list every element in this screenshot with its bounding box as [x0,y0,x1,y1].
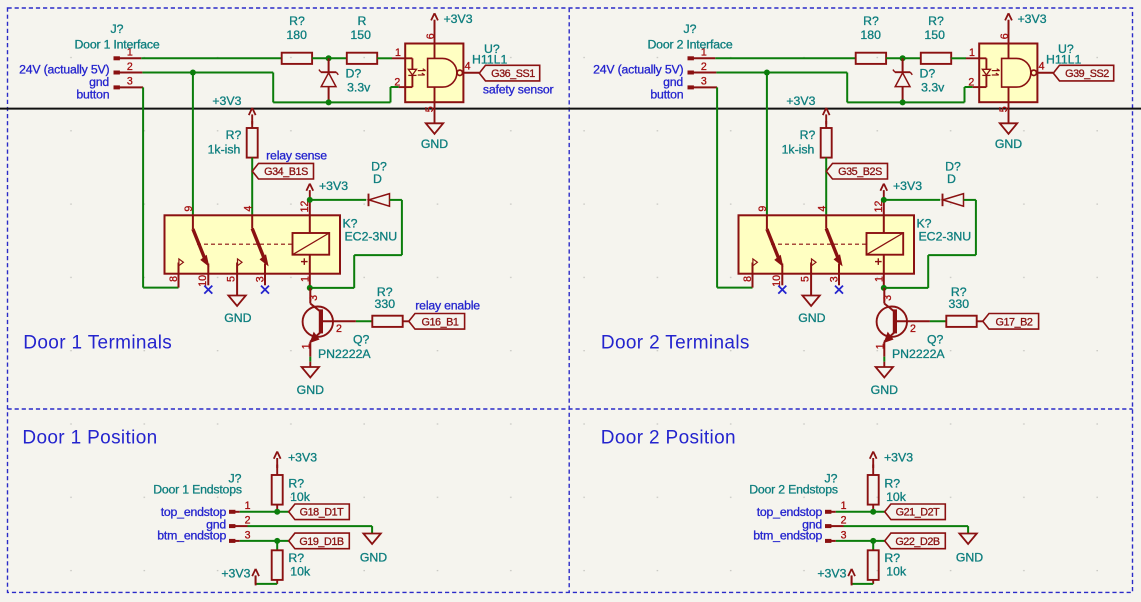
wire base to R330 [356,320,372,322]
ground relay pin 5 [802,296,819,307]
svg-text:10k: 10k [886,490,907,504]
wire flyback diode return loop [884,200,976,288]
opto pin 4 output [463,61,479,73]
svg-text:6: 6 [425,33,437,39]
section divider horizontal [8,408,1133,410]
svg-text:3: 3 [127,76,133,88]
connector J? endstop pin 1 [230,500,251,513]
transistor Q? PN2222A [874,288,945,361]
svg-text:Door 2 Position: Door 2 Position [601,428,736,449]
svg-text:180: 180 [286,28,307,42]
ground opto pin 5 [421,102,448,151]
resistor R? 180 [282,14,312,64]
svg-text:G34_B1S: G34_B1S [264,166,308,178]
section divider vertical [568,8,570,592]
svg-text:Door 1 Endstops: Door 1 Endstops [153,483,242,497]
connector J? endstop pin 3 [230,529,251,542]
wire emitter to ground [309,357,311,362]
svg-text:1: 1 [969,47,975,59]
node relay pin12 junction [881,197,887,203]
wire 24V rail pin2 [142,73,398,103]
global label relay enable flag [409,314,465,330]
svg-text:G18_D1T: G18_D1T [300,507,345,519]
svg-text:G21_D2T: G21_D2T [896,507,941,519]
svg-text:+3V3: +3V3 [212,94,241,108]
wire 24V to relay pin 9 [192,73,194,216]
svg-text:9: 9 [757,206,769,212]
svg-text:Door 2 Endstops: Door 2 Endstops [749,483,838,497]
svg-text:J?: J? [684,22,697,36]
svg-text:R?: R? [288,551,304,565]
svg-text:Door 2 Interface: Door 2 Interface [648,38,733,52]
wire top_endstop [836,511,885,513]
ground transistor emitter [871,362,898,397]
svg-text:EC2-3NU: EC2-3NU [918,230,971,244]
svg-text:GND: GND [995,137,1022,151]
graphic separator line [0,108,1141,110]
connector J? Door 1 Interface pin 2 [114,61,142,74]
text J? Door 2 Interface [648,22,733,51]
svg-text:1k-ish: 1k-ish [208,143,241,157]
svg-text:2: 2 [336,323,342,335]
svg-text:4: 4 [1039,61,1045,73]
connector J? endstop pin 2 [230,515,251,528]
wire flyback diode return loop [310,200,402,288]
connector J? Door 1 Interface pin 3 [114,76,143,89]
wire endstop gnd [248,526,373,533]
svg-text:1: 1 [395,47,401,59]
resistor R? 1k-ish [782,128,832,158]
svg-text:2: 2 [910,323,916,335]
svg-text:button: button [650,87,683,101]
svg-text:R?: R? [884,551,900,565]
flyback diode D? D [369,160,390,207]
relay K? EC2-3NU [739,200,972,296]
no-connect relay pin 10 [778,286,786,294]
wire R150 to opto pin1 [951,57,966,59]
node relay pin12 junction [307,197,313,203]
resistor 150 [347,28,377,64]
power +3V3 endstop pull-up top [274,451,317,475]
wire 10k to top_endstop [276,505,278,512]
svg-text:G19_D1B: G19_D1B [299,536,344,548]
svg-text:5: 5 [226,276,238,282]
global label relay enable flag [983,314,1039,330]
resistor R? 10k bottom [868,550,907,580]
wire coil to flyback diode [310,199,366,201]
flyback diode D? D [943,160,964,207]
svg-text:D?: D? [920,66,936,80]
svg-text:2: 2 [127,61,133,73]
svg-text:GND: GND [297,383,324,397]
zener diode D? 3.3v [893,58,945,102]
svg-text:150: 150 [924,28,945,42]
svg-text:10: 10 [771,275,783,287]
svg-text:H11L1: H11L1 [472,52,507,66]
svg-text:G17_B2: G17_B2 [996,316,1033,328]
svg-text:Door 1 Position: Door 1 Position [22,428,157,449]
svg-text:R?: R? [288,477,304,491]
wire btm_endstop to 10k [872,541,874,550]
svg-text:relay enable: relay enable [415,298,480,312]
svg-text:1: 1 [300,343,312,349]
wire btm_endstop [240,540,289,542]
text J? Door 1 Interface [75,22,160,51]
connector J? Door 2 Interface pin 1 [688,46,715,59]
power +3V3 endstop pull-up top [870,451,913,475]
svg-text:10k: 10k [290,490,311,504]
connector J? Door 2 Interface pin 3 [688,76,717,89]
svg-text:9: 9 [183,206,195,212]
node zener bottom junction [900,99,906,105]
svg-text:K?: K? [342,217,357,231]
svg-text:PN2222A: PN2222A [318,347,371,361]
svg-text:R?: R? [863,14,879,28]
svg-text:2: 2 [841,515,847,527]
wire base to R330 [930,320,946,322]
connector J? endstop pin 1 [826,500,847,513]
no-connect relay pin 3 [261,286,269,294]
svg-text:2: 2 [245,515,251,527]
svg-text:330: 330 [949,297,970,311]
wire R150 to opto pin1 [377,57,392,59]
power +3V3 relay sense resistor [212,94,255,128]
resistor R? 330 [946,285,976,327]
global label safety sensor flag [1053,65,1113,81]
connector J? endstop pin 3 [826,529,847,542]
global label top endstop flag [289,504,350,520]
svg-text:J?: J? [111,22,124,36]
ground relay pin 5 [228,296,245,307]
svg-text:1k-ish: 1k-ish [782,143,815,157]
svg-text:button: button [76,87,109,101]
svg-text:+3V3: +3V3 [884,451,913,465]
relay K? EC2-3NU [165,200,398,296]
svg-text:D: D [373,172,382,186]
svg-text:4: 4 [242,206,254,212]
global label relay sense flag [252,163,313,179]
svg-text:4: 4 [465,61,471,73]
node btm_endstop junction [870,538,876,544]
wire endstop gnd [844,526,969,533]
svg-text:+3V3: +3V3 [221,567,250,581]
svg-text:PN2222A: PN2222A [892,347,945,361]
svg-text:Door 1 Interface: Door 1 Interface [75,38,160,52]
wire R180 to R150 [312,57,347,59]
global label btm endstop flag [289,533,350,549]
svg-text:K?: K? [916,217,931,231]
power +3V3 opto pin 6 [425,12,473,44]
svg-text:GND: GND [224,311,251,325]
node zener top junction [326,55,332,61]
power +3V3 relay coil [306,179,348,200]
connector J? Door 2 Interface pin 2 [688,61,716,74]
svg-text:R?: R? [289,14,305,28]
svg-text:GND: GND [421,137,448,151]
resistor R? 10k bottom [272,550,311,580]
wire 10k to top_endstop [872,505,874,512]
svg-text:10: 10 [197,275,209,287]
node top_endstop junction [274,509,280,515]
svg-text:G36_SS1: G36_SS1 [491,68,535,80]
svg-text:EC2-3NU: EC2-3NU [344,230,397,244]
svg-text:10k: 10k [886,564,907,578]
wire R180 to R150 [886,57,921,59]
svg-text:Q?: Q? [927,333,944,347]
node relay pin1 collector junction [881,285,887,291]
resistor R? 180 [856,14,886,64]
svg-text:1: 1 [841,500,847,512]
svg-text:+3V3: +3V3 [786,94,815,108]
svg-text:4: 4 [816,206,828,212]
wire btm_endstop [836,540,885,542]
node top_endstop junction [870,509,876,515]
wire relay sense [825,158,827,216]
wire 10k bottom to +3V3 [852,580,874,584]
svg-text:3.3v: 3.3v [921,80,945,94]
svg-text:6: 6 [999,33,1011,39]
no-connect relay pin 3 [835,286,843,294]
svg-text:+3V3: +3V3 [893,179,922,193]
svg-text:G39_SS2: G39_SS2 [1065,68,1109,80]
opto-isolator U? H11L1 [392,42,508,102]
svg-text:2: 2 [701,61,707,73]
svg-text:330: 330 [375,297,396,311]
global label relay sense flag [826,163,887,179]
resistor R? 10k top [868,475,907,505]
svg-text:H11L1: H11L1 [1046,52,1081,66]
power +3V3 endstop bottom [817,567,855,586]
svg-text:btm_endstop: btm_endstop [157,528,226,542]
wire pin1 to R180 [141,57,281,59]
resistor R? 1k-ish [208,128,258,158]
svg-text:G16_B1: G16_B1 [422,316,459,328]
text J? Door 2 Endstops [749,472,838,497]
svg-text:GND: GND [360,551,387,565]
wire R330 to relay enable flag [977,320,983,322]
svg-text:R: R [358,14,367,28]
svg-text:R?: R? [928,14,944,28]
svg-text:+3V3: +3V3 [319,179,348,193]
svg-text:GND: GND [956,551,983,565]
svg-text:2: 2 [968,77,974,89]
connector J? endstop pin 2 [826,515,847,528]
svg-text:8: 8 [168,276,180,282]
wire coil to flyback diode [884,199,940,201]
svg-text:D: D [947,172,956,186]
svg-text:1: 1 [873,276,885,282]
node zener bottom junction [326,99,332,105]
svg-text:3.3v: 3.3v [347,80,371,94]
node btm_endstop junction [274,538,280,544]
svg-text:180: 180 [860,28,881,42]
wire relay sense [251,158,253,216]
svg-text:Door 1 Terminals: Door 1 Terminals [23,333,172,354]
opto-isolator U? H11L1 [966,42,1082,102]
svg-text:Door 2 Terminals: Door 2 Terminals [601,333,750,354]
svg-text:G35_B2S: G35_B2S [838,166,882,178]
svg-text:safety sensor: safety sensor [483,82,554,96]
svg-text:150: 150 [350,28,371,42]
wire pin1 to R180 [715,57,855,59]
svg-text:R?: R? [226,128,242,142]
transistor Q? PN2222A [300,288,371,361]
resistor R? 10k top [272,475,311,505]
resistor R? 330 [372,285,402,327]
svg-text:GND: GND [798,311,825,325]
node relay pin1 collector junction [307,285,313,291]
power +3V3 relay sense resistor [786,94,829,128]
svg-text:relay sense: relay sense [266,149,327,163]
svg-text:btm_endstop: btm_endstop [753,528,822,542]
wire 24V to relay pin 9 [766,73,768,216]
svg-text:8: 8 [742,276,754,282]
svg-text:D?: D? [346,66,362,80]
ground endstop [959,534,976,545]
svg-text:5: 5 [424,106,436,112]
svg-text:R?: R? [884,477,900,491]
wire btm_endstop to 10k [276,541,278,550]
wire top_endstop [240,511,289,513]
svg-text:2: 2 [394,77,400,89]
svg-text:3: 3 [701,76,707,88]
svg-text:3: 3 [245,529,251,541]
global label btm endstop flag [885,533,946,549]
wire 10k bottom to +3V3 [256,580,278,584]
wire button to relay pin 8 [143,87,178,287]
svg-text:Q?: Q? [353,333,370,347]
power +3V3 opto pin 6 [999,12,1047,44]
node 24V junction [190,70,196,76]
svg-text:3: 3 [882,295,894,301]
wire 24V rail pin2 [716,73,972,103]
svg-text:G22_D2B: G22_D2B [895,536,940,548]
svg-text:1: 1 [299,276,311,282]
ground endstop [363,534,380,545]
svg-text:5: 5 [800,276,812,282]
ground opto pin 5 [995,102,1022,151]
wire emitter to ground [883,357,885,362]
wire R330 to relay enable flag [403,320,409,322]
svg-text:+3V3: +3V3 [1017,12,1046,26]
node 24V junction [764,70,770,76]
svg-text:3: 3 [841,529,847,541]
connector J? Door 1 Interface pin 1 [114,46,141,59]
power +3V3 relay coil [880,179,922,200]
svg-text:3: 3 [255,276,267,282]
global label top endstop flag [885,504,946,520]
svg-text:GND: GND [871,383,898,397]
svg-text:+3V3: +3V3 [817,567,846,581]
ground transistor emitter [297,362,324,397]
svg-text:1: 1 [874,343,886,349]
text J? Door 1 Endstops [153,472,242,497]
svg-text:+3V3: +3V3 [288,451,317,465]
svg-text:R?: R? [800,128,816,142]
svg-text:3: 3 [829,276,841,282]
node zener top junction [900,55,906,61]
no-connect relay pin 10 [204,286,212,294]
power +3V3 endstop bottom [221,567,259,586]
wire button to relay pin 8 [717,87,752,287]
opto pin 4 output [1037,61,1053,73]
svg-text:1: 1 [245,500,251,512]
svg-text:5: 5 [998,106,1010,112]
svg-text:+3V3: +3V3 [443,12,472,26]
svg-text:3: 3 [308,295,320,301]
global label safety sensor flag [479,65,539,81]
resistor 150 [921,28,951,64]
zener diode D? 3.3v [319,58,371,102]
svg-text:10k: 10k [290,564,311,578]
